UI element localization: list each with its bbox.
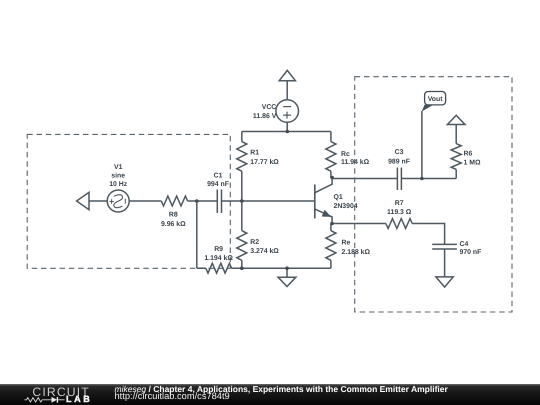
svg-text:2N3904: 2N3904 bbox=[334, 203, 358, 210]
svg-text:R2: R2 bbox=[250, 239, 259, 246]
svg-text:970 nF: 970 nF bbox=[460, 249, 482, 256]
svg-text:2.188 kΩ: 2.188 kΩ bbox=[342, 249, 371, 256]
svg-text:VCC: VCC bbox=[262, 104, 277, 111]
svg-text:sine: sine bbox=[111, 173, 125, 180]
svg-text:3.274 kΩ: 3.274 kΩ bbox=[250, 248, 279, 255]
svg-text:1 MΩ: 1 MΩ bbox=[464, 160, 481, 167]
svg-text:Q1: Q1 bbox=[334, 194, 343, 201]
svg-text:1.194 kΩ: 1.194 kΩ bbox=[204, 255, 233, 262]
svg-text:R8: R8 bbox=[169, 212, 178, 219]
svg-text:17.77 kΩ: 17.77 kΩ bbox=[250, 159, 279, 166]
svg-text:11.94 kΩ: 11.94 kΩ bbox=[341, 159, 370, 166]
svg-text:C4: C4 bbox=[460, 241, 469, 248]
svg-text:Vout: Vout bbox=[428, 96, 444, 103]
svg-text:119.3 Ω: 119.3 Ω bbox=[387, 209, 412, 216]
svg-text:11.86 V: 11.86 V bbox=[253, 113, 277, 120]
svg-text:C1: C1 bbox=[214, 173, 223, 180]
svg-text:Re: Re bbox=[342, 240, 351, 247]
svg-text:C3: C3 bbox=[395, 149, 404, 156]
svg-text:Rc: Rc bbox=[341, 151, 350, 158]
svg-text:R1: R1 bbox=[250, 150, 259, 157]
svg-text:R9: R9 bbox=[214, 246, 223, 253]
svg-text:R7: R7 bbox=[395, 200, 404, 207]
svg-text:994 nF: 994 nF bbox=[207, 181, 229, 188]
svg-text:R6: R6 bbox=[464, 150, 473, 157]
svg-text:10 Hz: 10 Hz bbox=[109, 181, 128, 188]
svg-text:989 nF: 989 nF bbox=[388, 158, 410, 165]
svg-text:9.96 kΩ: 9.96 kΩ bbox=[161, 221, 186, 228]
svg-text:V1: V1 bbox=[114, 164, 123, 171]
